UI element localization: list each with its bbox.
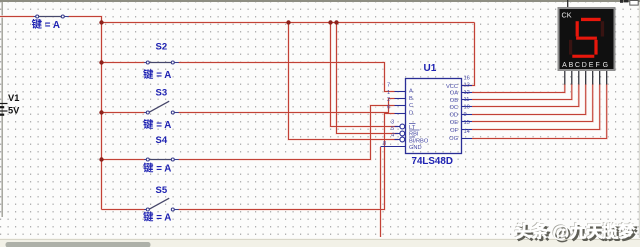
- node bus S2: [99, 60, 103, 64]
- svg-text:10: 10: [464, 105, 470, 111]
- wire bus drop to BI/RBO: [289, 23, 399, 140]
- wire OE to display E: [472, 84, 593, 122]
- svg-text:S3: S3: [156, 88, 168, 99]
- node bus S3: [99, 110, 103, 114]
- svg-text:C: C: [409, 103, 413, 109]
- display CK top pin: [567, 0, 569, 8]
- battery V1: [0, 104, 8, 115]
- wire OD to display D: [472, 84, 586, 115]
- svg-text:74LS48D: 74LS48D: [412, 156, 453, 167]
- op-chip U1 box: [406, 79, 462, 154]
- wire OG to display G: [472, 84, 607, 139]
- segment B (off): [601, 21, 604, 36]
- svg-text:1: 1: [387, 90, 390, 96]
- svg-text:9: 9: [464, 112, 467, 118]
- display body: [559, 8, 615, 70]
- U1 pin numbers: [383, 76, 470, 148]
- wire S1 row to corner: [0, 15, 34, 17]
- display pin stubs bottom: [565, 70, 607, 85]
- svg-text:A: A: [409, 89, 413, 95]
- switch S3 (open): [144, 101, 179, 114]
- node bus S4: [99, 157, 103, 161]
- wire GND down: [380, 147, 382, 237]
- svg-text:V1: V1: [8, 93, 19, 103]
- wire bus drop to RBI: [337, 23, 399, 134]
- label S3: [143, 88, 171, 132]
- wire S3 row: [102, 111, 145, 113]
- wire S4 row: [102, 159, 145, 161]
- U1 inversion overlines: [409, 124, 420, 138]
- wire S4 row: [102, 158, 145, 160]
- svg-text:D: D: [409, 111, 413, 117]
- svg-text:11: 11: [464, 97, 470, 103]
- segment F (lit): [576, 21, 579, 36]
- svg-text:U1: U1: [424, 63, 437, 74]
- U1 pin stubs right: [462, 86, 473, 139]
- svg-text:16: 16: [464, 76, 470, 82]
- svg-text:OF: OF: [450, 128, 458, 134]
- svg-text:13: 13: [464, 83, 470, 89]
- svg-text:12: 12: [464, 90, 470, 96]
- svg-text:OG: OG: [449, 136, 458, 142]
- label S2: [143, 42, 171, 82]
- svg-text:15: 15: [464, 120, 470, 126]
- wire top bus: [102, 21, 475, 23]
- svg-text:OE: OE: [450, 120, 458, 126]
- svg-text:CK: CK: [562, 11, 572, 20]
- svg-text:2: 2: [387, 97, 390, 103]
- node bus BI drop: [286, 20, 290, 24]
- wire OC to display C: [472, 84, 579, 107]
- svg-text:OB: OB: [450, 98, 458, 104]
- wire OD to display D: [472, 84, 586, 115]
- segment E (off): [569, 40, 572, 55]
- svg-text:5V: 5V: [8, 106, 20, 116]
- wire bus drop to BI/RBO: [289, 23, 399, 140]
- segment G (lit): [576, 37, 597, 40]
- label S5: [143, 185, 171, 224]
- svg-text:5: 5: [391, 126, 394, 132]
- svg-text:F: F: [596, 62, 600, 69]
- wire bus drop to RBI: [337, 23, 399, 134]
- svg-text:S2: S2: [156, 42, 168, 53]
- svg-text:E: E: [589, 62, 594, 69]
- U1 inside pin names: [409, 84, 459, 151]
- svg-text:7: 7: [387, 83, 390, 89]
- label V1: [8, 93, 20, 116]
- segment A (lit): [581, 18, 601, 21]
- svg-text:14: 14: [464, 129, 470, 135]
- wire OF to display F: [472, 84, 600, 130]
- switch S2 (closed): [144, 61, 179, 64]
- wire S1 row to corner: [0, 16, 34, 18]
- node bus LT drop: [328, 20, 332, 24]
- wire S2 row: [102, 61, 145, 63]
- wire OA to display A: [472, 84, 565, 93]
- node bus/top junction: [99, 20, 103, 24]
- wire GND down: [379, 147, 381, 237]
- svg-text:C: C: [575, 62, 580, 69]
- svg-text:GND: GND: [409, 145, 422, 151]
- svg-text:OC: OC: [449, 105, 458, 111]
- svg-text:OA: OA: [450, 91, 458, 97]
- U1 pin stubs left: [381, 92, 406, 147]
- wire VCC drop: [462, 23, 475, 86]
- svg-text:VCC: VCC: [446, 84, 458, 90]
- junction dots: [99, 20, 338, 161]
- wire OC to display C: [472, 84, 579, 107]
- window top border: [0, 0, 640, 2]
- wire S5 row: [102, 208, 145, 210]
- wire S3 row: [102, 112, 145, 114]
- svg-text:B: B: [409, 96, 413, 102]
- svg-text:BI/RBO: BI/RBO: [409, 139, 429, 145]
- svg-text:RBI: RBI: [409, 132, 419, 138]
- svg-text:G: G: [603, 62, 608, 69]
- label S4: [143, 135, 171, 175]
- svg-text:8: 8: [383, 141, 386, 147]
- wire VCC drop: [462, 23, 475, 86]
- svg-text:S4: S4: [156, 135, 168, 146]
- switch S5 (open): [144, 198, 179, 211]
- svg-text:4: 4: [391, 133, 394, 139]
- wire bus drop to LT: [331, 23, 399, 127]
- svg-text:D: D: [582, 62, 587, 69]
- svg-text:3: 3: [391, 120, 394, 126]
- wire top bus: [102, 22, 475, 24]
- switch S1: [34, 15, 69, 18]
- wire OB to display B: [472, 84, 572, 100]
- segment D (lit): [572, 55, 594, 58]
- svg-text:6: 6: [387, 105, 390, 111]
- wire OG to display G: [472, 84, 607, 139]
- wire S5 row: [102, 209, 145, 211]
- display segment letters: [562, 62, 608, 69]
- wire S2 row: [102, 62, 145, 64]
- switch S4 (closed): [144, 158, 179, 161]
- label S1 key: [32, 19, 60, 31]
- node bus RBI drop: [334, 20, 338, 24]
- svg-text:A: A: [562, 62, 567, 69]
- wire OA to display A: [472, 84, 565, 93]
- wire OF to display F: [472, 84, 600, 130]
- wire OE to display E: [472, 84, 593, 122]
- segment C (lit): [594, 40, 597, 55]
- svg-text:B: B: [569, 62, 574, 69]
- svg-text:S5: S5: [156, 185, 168, 196]
- wire bus drop to LT: [331, 23, 399, 127]
- wire OB to display B: [472, 84, 572, 100]
- top-right UI artifact: [620, 0, 623, 3]
- svg-text:OD: OD: [449, 113, 458, 119]
- window left border: [1, 2, 3, 217]
